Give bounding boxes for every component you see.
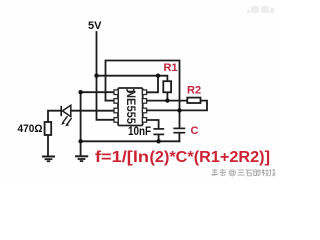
svg-text:5V: 5V <box>88 20 102 32</box>
svg-text:R2: R2 <box>187 85 201 97</box>
svg-text:NE555: NE555 <box>124 90 138 124</box>
svg-text:(2)*C*(R1+2R2)]: (2)*C*(R1+2R2)] <box>150 149 271 166</box>
svg-text:470Ω: 470Ω <box>18 123 43 135</box>
svg-text:R1: R1 <box>164 62 178 74</box>
svg-text:10nF: 10nF <box>128 124 151 138</box>
svg-text:f=1/[ln: f=1/[ln <box>95 149 149 166</box>
svg-text:C: C <box>191 125 199 137</box>
